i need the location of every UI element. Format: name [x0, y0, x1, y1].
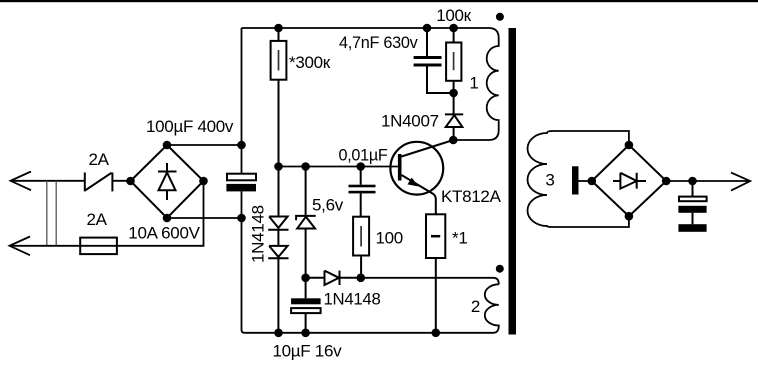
resistor R2 100 — [353, 217, 369, 278]
svg-text:2: 2 — [471, 297, 480, 316]
label 2A bottom — [87, 210, 108, 229]
node output — [688, 177, 697, 186]
capacitor C2 10uF 16v — [291, 278, 321, 333]
svg-text:1N4007: 1N4007 — [381, 111, 439, 130]
node below R100k — [449, 89, 458, 98]
zener VD4 5.6v — [296, 167, 316, 278]
node feedback zener — [301, 274, 310, 283]
capacitor C1 100uF 400v — [226, 174, 256, 192]
input arrow bottom — [10, 237, 31, 256]
node bottom rail diode pair — [274, 329, 283, 338]
transformer winding 2 — [245, 284, 499, 333]
resistor R3 100k — [446, 28, 461, 93]
wire output — [666, 180, 748, 182]
wire AC line bottom — [10, 181, 204, 246]
diode VD5 1N4148 horizontal — [306, 271, 361, 285]
node bottom rail R*1 — [432, 329, 441, 338]
bridge VD1 inner diode — [158, 163, 177, 200]
bridge rectifier VD1 10A 600V — [131, 145, 204, 218]
transistor base bar — [398, 154, 402, 181]
transistor VT1 KT812A — [390, 142, 443, 195]
node top rail C4.7nF — [423, 24, 432, 33]
svg-text:4,7nF 630v: 4,7nF 630v — [339, 33, 418, 52]
output arrow — [731, 173, 750, 191]
node DC minus junction — [237, 214, 246, 223]
wire left column top — [241, 28, 243, 174]
svg-text:3: 3 — [545, 171, 554, 190]
label 100k — [436, 6, 471, 25]
transformer core — [509, 28, 517, 335]
label winding 2 — [471, 297, 480, 316]
svg-text:2A: 2A — [87, 210, 108, 229]
node bridge2 right — [662, 177, 671, 186]
transformer winding 1 — [453, 38, 498, 140]
node feedback R100 — [357, 274, 366, 283]
node bridge2 bottom — [625, 212, 634, 221]
node bottom rail C10uF — [301, 329, 310, 338]
label 0,01uF — [339, 145, 388, 164]
label *1 — [452, 229, 467, 248]
label 100uF 400v — [146, 117, 234, 136]
label 10A 600V — [128, 224, 200, 243]
wire bridge DC plus — [167, 144, 242, 146]
transistor emitter line — [402, 175, 436, 214]
polarity dot winding 2 — [496, 265, 504, 273]
label 10uF 16v — [273, 342, 343, 361]
node bridge top — [163, 141, 172, 150]
breaker F1 2A — [85, 173, 113, 192]
node bridge2 top — [625, 141, 634, 150]
resistor R4 *1 — [426, 214, 445, 332]
top border line — [0, 0, 758, 2]
svg-text:10A 600V: 10A 600V — [128, 224, 200, 243]
svg-text:KT812A: KT812A — [441, 187, 502, 206]
fuse F2 2A — [80, 238, 117, 255]
svg-text:5,6v: 5,6v — [312, 195, 344, 214]
label 100 — [376, 228, 403, 247]
capacitor C5 output — [678, 181, 706, 224]
diodes VD2 VD3 1N4148 pair — [268, 167, 288, 333]
node base wire C0.01 — [356, 162, 365, 171]
node DC plus junction — [237, 141, 246, 150]
transformer winding 3 — [528, 131, 629, 227]
bridge rectifier VD7 secondary — [592, 145, 666, 216]
electrode bar secondary — [572, 166, 592, 194]
label KT812A — [441, 187, 502, 206]
svg-text:1N4148: 1N4148 — [324, 290, 381, 309]
label 1N4148 bottom — [324, 290, 381, 309]
wire breaker to bridge — [112, 180, 130, 182]
node top rail R300k — [274, 24, 283, 33]
diode VD6 1N4007 — [445, 93, 463, 140]
svg-text:1N4148: 1N4148 — [248, 205, 267, 263]
transistor emitter arrow — [408, 178, 419, 187]
label 4,7nF 630v — [339, 33, 418, 52]
node collector — [449, 136, 458, 145]
wire AC line top — [11, 180, 85, 182]
svg-text:*300к: *300к — [289, 53, 331, 72]
wire top rail — [242, 28, 499, 38]
node bridge2 left — [588, 177, 597, 186]
node base wire R300k — [274, 162, 283, 171]
wire left column bottom — [242, 191, 245, 332]
capacitor C4 4.7nF 630v — [414, 28, 454, 93]
label 2A top — [89, 150, 110, 169]
polarity dot winding 1 — [496, 13, 504, 21]
svg-text:100µF 400v: 100µF 400v — [146, 117, 234, 136]
label 1N4148 vertical — [248, 205, 267, 263]
wire base line — [279, 166, 398, 168]
node top rail R100k — [449, 24, 458, 33]
node bridge left — [126, 177, 135, 186]
connector cord lines — [47, 181, 56, 246]
resistor R1 300k — [271, 28, 287, 167]
label 5,6v — [312, 195, 344, 214]
node bridge bottom — [163, 214, 172, 223]
svg-text:1: 1 — [469, 74, 478, 93]
node bridge right — [199, 177, 208, 186]
label winding 3 — [545, 171, 554, 190]
svg-text:2A: 2A — [89, 150, 110, 169]
bridge VD7 inner diode — [613, 173, 646, 189]
svg-text:100к: 100к — [436, 6, 471, 25]
capacitor C3 0.01uF — [349, 167, 376, 217]
label *300k — [289, 53, 331, 72]
svg-text:0,01µF: 0,01µF — [339, 145, 388, 164]
transistor collector line — [402, 140, 454, 157]
label winding 1 — [469, 74, 478, 93]
svg-text:100: 100 — [376, 228, 403, 247]
wire bridge DC minus — [167, 217, 242, 219]
label 1N4007 — [381, 111, 439, 130]
svg-text:10µF 16v: 10µF 16v — [273, 342, 343, 361]
ground bar output — [678, 224, 706, 232]
node base wire zener — [301, 162, 310, 171]
svg-text:*1: *1 — [452, 229, 467, 248]
input arrow top — [11, 172, 32, 191]
wire feedback to winding 2 — [361, 278, 499, 285]
